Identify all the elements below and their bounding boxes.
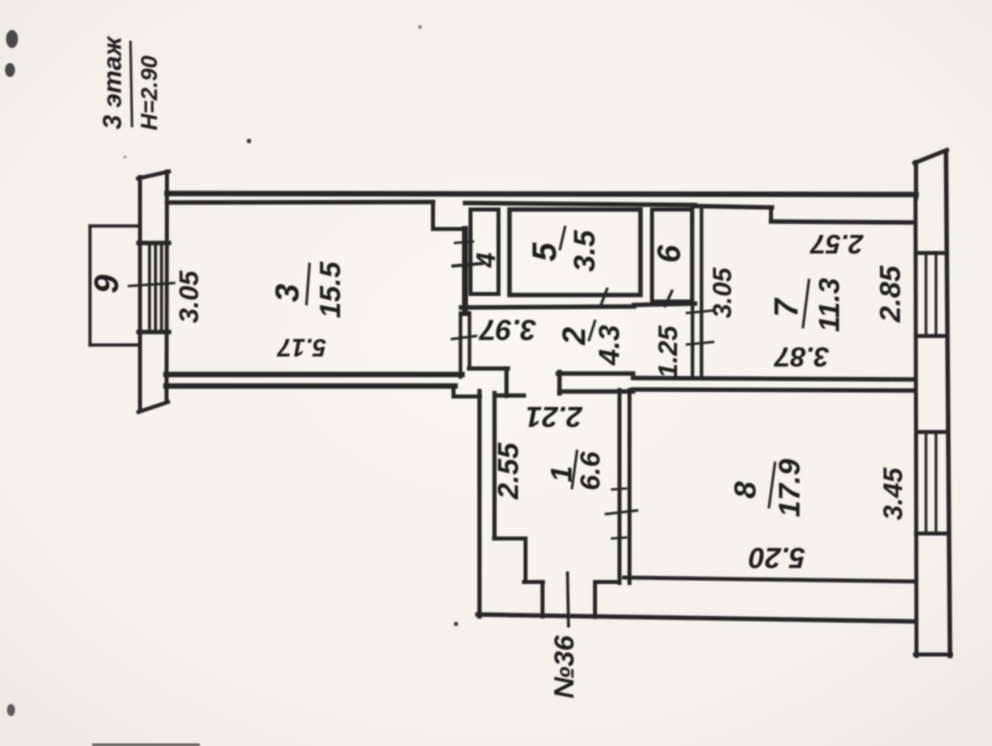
- svg-text:11.3: 11.3: [814, 278, 846, 332]
- svg-text:6.6: 6.6: [575, 451, 606, 490]
- window W1 bottom cap: [139, 330, 170, 335]
- balcony 9 outline: [88, 226, 91, 345]
- left wall: top flare: [138, 177, 142, 411]
- door tick room 5: [601, 289, 607, 305]
- svg-text:3.97: 3.97: [478, 313, 536, 345]
- svg-text:3.45: 3.45: [878, 467, 908, 521]
- speck dots: [92, 25, 458, 746]
- svg-text:4.3: 4.3: [594, 325, 626, 366]
- svg-text:15.5: 15.5: [315, 261, 347, 318]
- window W1 hatch lines: [148, 243, 151, 332]
- svg-text:5.17: 5.17: [277, 333, 327, 361]
- svg-text:1.25: 1.25: [653, 325, 683, 379]
- svg-text:5: 5: [526, 241, 564, 261]
- right wall outer line: [946, 151, 950, 656]
- dimension tick 3.97: [452, 336, 476, 339]
- svg-text:3.05: 3.05: [707, 267, 737, 318]
- door tick: [606, 511, 637, 515]
- door tick room 6: [665, 291, 672, 306]
- door jamb dashes: [612, 489, 626, 490]
- svg-text:6: 6: [651, 245, 687, 263]
- svg-text:3.05: 3.05: [174, 270, 204, 324]
- svg-text:5.20: 5.20: [749, 541, 805, 573]
- fraction bars: [307, 264, 310, 304]
- title underline: [131, 42, 133, 126]
- top wall inner line over room 7: [695, 206, 772, 208]
- window W1 (balcony window, room 3) top cap: [139, 241, 170, 246]
- right wall top flare: [914, 162, 918, 198]
- svg-text:2.55: 2.55: [493, 442, 525, 500]
- svg-text:2: 2: [556, 327, 592, 346]
- corridor 2 top line: [461, 307, 634, 308]
- entry threshold tick: [568, 573, 569, 626]
- stain top-left edge: [5, 30, 18, 716]
- room 1 closet step: [494, 537, 526, 541]
- svg-text:3 этаж: 3 этаж: [97, 35, 127, 130]
- svg-text:8: 8: [728, 481, 763, 499]
- svg-text:17.9: 17.9: [774, 458, 807, 517]
- svg-text:Н=2.90: Н=2.90: [136, 55, 162, 130]
- svg-text:3.5: 3.5: [569, 229, 602, 272]
- svg-text:2.57: 2.57: [809, 229, 865, 259]
- svg-text:3: 3: [269, 284, 306, 302]
- svg-text:3.87: 3.87: [773, 342, 829, 373]
- svg-text:7: 7: [768, 297, 805, 317]
- door tick room 3: [455, 242, 473, 244]
- svg-text:4: 4: [471, 252, 501, 268]
- svg-text:2.21: 2.21: [526, 400, 583, 432]
- room 3 top-right notch: [431, 202, 435, 229]
- dimension tick through left wall: [129, 283, 174, 286]
- right wall interior line: [916, 198, 917, 656]
- long tick / stem of label 4: [453, 264, 482, 267]
- left wall: bottom flare: [139, 402, 169, 412]
- top wall inner line left span: [167, 200, 433, 205]
- dimension ticks 1.25: [687, 311, 713, 314]
- room 1 bottom wall with entry opening: [524, 580, 543, 584]
- right wall bottom cap: [915, 653, 951, 657]
- svg-text:2.85: 2.85: [875, 265, 907, 323]
- svg-text:№36: №36: [549, 635, 580, 699]
- title floor label "3 этаж / Н=2.90": [97, 35, 162, 131]
- top wall outer line: [167, 194, 916, 195]
- room 7 top step: [769, 208, 773, 222]
- svg-text:9: 9: [88, 274, 126, 293]
- step from lower line down to room1 outer wall: [452, 386, 456, 397]
